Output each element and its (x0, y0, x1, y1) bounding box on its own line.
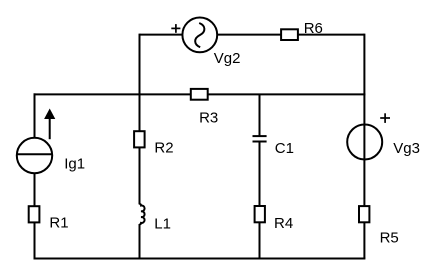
svg-text:R2: R2 (154, 140, 173, 157)
plus sign of Vg2 (171, 24, 180, 33)
wire third rail vertical upper (to C1 top plate) (259, 94, 261, 136)
wire middle horizontal bus (34, 93, 366, 95)
capacitor C1 (253, 136, 267, 141)
svg-text:Ig1: Ig1 (64, 156, 85, 173)
current source Ig1 (17, 138, 52, 173)
resistor R5 (359, 206, 369, 222)
svg-text:Vg2: Vg2 (214, 50, 241, 67)
current direction arrow for Ig1 (44, 109, 55, 140)
voltage source Vg2 (182, 18, 217, 53)
svg-text:C1: C1 (275, 140, 294, 157)
inductor L1 (140, 204, 145, 224)
resistor R3 (191, 89, 208, 100)
svg-text:R5: R5 (380, 229, 399, 246)
wire third rail vertical lower (from C1 bottom plate) (259, 142, 261, 259)
resistor R6 (281, 29, 298, 40)
svg-text:R6: R6 (304, 20, 323, 37)
resistor R1 (29, 206, 40, 222)
resistor R2 (134, 131, 145, 147)
svg-text:L1: L1 (154, 215, 171, 232)
plus sign of Vg3 (380, 113, 390, 123)
voltage source Vg3 (347, 125, 382, 160)
wire second rail vertical lower (below L1) (139, 224, 141, 259)
wire second rail vertical upper (through R2) (139, 34, 141, 205)
wire top horizontal from node above R2 to top-right corner (140, 34, 365, 36)
wire left rail vertical (34, 93, 36, 258)
svg-text:R1: R1 (49, 214, 68, 231)
resistor R4 (255, 206, 265, 222)
wire bottom horizontal (34, 258, 366, 260)
svg-text:R4: R4 (274, 215, 293, 232)
svg-text:Vg3: Vg3 (393, 140, 420, 157)
wire right rail vertical (363, 34, 365, 259)
svg-text:R3: R3 (199, 110, 218, 127)
